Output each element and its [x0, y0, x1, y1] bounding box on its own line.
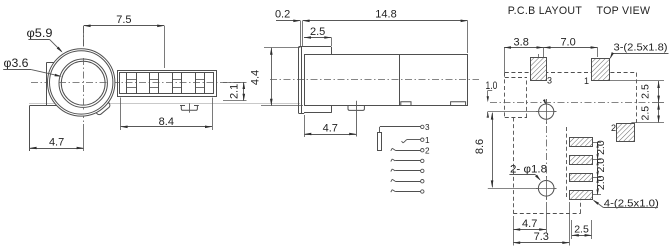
svg-text:3.8: 3.8 [514, 36, 529, 48]
svg-text:1: 1 [584, 76, 589, 86]
svg-text:7.5: 7.5 [116, 14, 131, 26]
svg-text:3: 3 [547, 76, 552, 86]
svg-text:14.8: 14.8 [375, 8, 396, 20]
svg-text:φ3.6: φ3.6 [4, 56, 29, 70]
svg-text:2- φ1.8: 2- φ1.8 [510, 164, 547, 176]
svg-text:3: 3 [425, 123, 430, 132]
svg-text:2.0: 2.0 [595, 158, 607, 173]
svg-text:8.6: 8.6 [474, 139, 486, 154]
svg-text:2.1: 2.1 [229, 84, 241, 99]
svg-text:4.7: 4.7 [49, 137, 64, 149]
svg-text:7.0: 7.0 [560, 36, 575, 48]
svg-text:2.0: 2.0 [595, 175, 607, 190]
svg-text:2.5: 2.5 [574, 224, 589, 236]
svg-text:1.0: 1.0 [486, 80, 498, 92]
svg-text:P.C.B LAYOUT: P.C.B LAYOUT [508, 5, 583, 17]
svg-text:8.4: 8.4 [159, 116, 174, 128]
svg-text:0.2: 0.2 [275, 9, 290, 21]
svg-text:2: 2 [611, 123, 616, 133]
svg-text:3-(2.5x1.8): 3-(2.5x1.8) [614, 43, 668, 54]
svg-text:1: 1 [425, 136, 430, 145]
svg-text:2.5: 2.5 [639, 84, 651, 99]
svg-text:2.5: 2.5 [310, 26, 325, 38]
svg-text:2: 2 [425, 147, 430, 156]
svg-text:2.5: 2.5 [639, 106, 651, 121]
svg-text:4.7: 4.7 [323, 122, 338, 134]
svg-text:2.0: 2.0 [595, 140, 607, 155]
svg-text:4.7: 4.7 [522, 218, 537, 230]
svg-text:4.4: 4.4 [250, 70, 262, 85]
svg-text:φ5.9: φ5.9 [27, 26, 53, 40]
svg-text:TOP VIEW: TOP VIEW [597, 5, 651, 17]
svg-text:7.3: 7.3 [534, 231, 549, 243]
